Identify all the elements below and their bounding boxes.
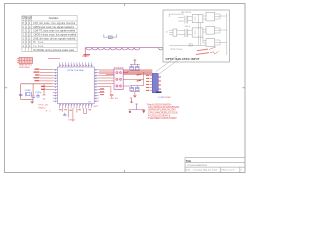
- svg-text:RST1: RST1: [93, 106, 99, 108]
- svg-text:CPLD BUS BOARD REV A: CPLD BUS BOARD REV A: [187, 164, 208, 167]
- left wire net labels: [34, 69, 46, 90]
- wire right rail: [140, 72, 144, 86]
- wire net PWR: [48, 58, 60, 60]
- J2 pin labels: [146, 75, 149, 91]
- bus band to J2: [114, 70, 152, 75]
- driver U14: [206, 26, 215, 34]
- J2 pin stubs: [150, 76, 153, 91]
- U1 left pins: [53, 69, 58, 101]
- transformer T2: [185, 29, 188, 37]
- connector J1: [17, 58, 33, 64]
- ground cluster: [129, 104, 146, 114]
- bottom pin net labels: [59, 109, 91, 110]
- ground: [30, 100, 34, 104]
- svg-text:J5: J5: [166, 31, 168, 33]
- svg-text:Pin MODE: all bus deferred ena: Pin MODE: all bus deferred enable state: [33, 49, 75, 52]
- svg-text:CMOS hi input mode, bus signal: CMOS hi input mode, bus signals enabled: [33, 33, 77, 36]
- jumper W1 top-center: [104, 34, 117, 38]
- svg-text:LINE def state, all bus signal: LINE def state, all bus signals enabled: [33, 37, 76, 40]
- opto U11: [192, 28, 203, 37]
- wire to U1: [43, 84, 46, 95]
- svg-text:R3: R3: [46, 111, 51, 113]
- net label bottom: [68, 106, 99, 121]
- right pin net labels: [100, 88, 104, 95]
- svg-text:R NET: R NET: [166, 97, 172, 99]
- U1 bottom pin numbers: [60, 104, 92, 105]
- notes table header text: [22, 17, 59, 22]
- svg-text:Y1 8M: Y1 8M: [25, 90, 31, 92]
- svg-text:VBAT2: VBAT2: [38, 106, 46, 109]
- J2 bottom edge mark: [156, 91, 162, 93]
- jumper JP1: [114, 69, 123, 90]
- wire diagonals to detail box: [156, 56, 180, 74]
- svg-text:RTN 2.2K A: RTN 2.2K A: [171, 48, 183, 51]
- U13 wires: [203, 14, 227, 19]
- transformer T1: [185, 16, 188, 24]
- svg-text:CMOS input mode, bus signals i: CMOS input mode, bus signals isolated in: [33, 26, 75, 29]
- net bus wire to detail box: [85, 48, 163, 50]
- net labels mid: [137, 74, 142, 82]
- notes table: [22, 15, 77, 51]
- svg-text:Date:: Date:: [186, 168, 192, 171]
- resistor R10: [169, 44, 206, 46]
- capacitor C4 C5 pair: [130, 65, 140, 71]
- power symbol VCC2: [134, 59, 137, 65]
- connector J5: [169, 29, 177, 36]
- title block date sheet text: [186, 168, 243, 171]
- capacitor C2: [31, 96, 35, 100]
- svg-text:PWR.GD: PWR.GD: [22, 17, 32, 19]
- svg-text:GND-A1: GND-A1: [38, 104, 49, 107]
- capacitor C1: [19, 94, 23, 95]
- capacitor C8: [63, 113, 66, 116]
- wire to JP1: [99, 75, 114, 94]
- ground: [133, 92, 137, 98]
- title block title text: [186, 159, 208, 167]
- svg-text:GND-B: GND-B: [68, 119, 76, 121]
- net label VCC: [82, 54, 90, 58]
- T2 input wires: [177, 31, 185, 35]
- approval note red: [196, 49, 209, 55]
- detail box: [163, 10, 229, 62]
- wire VCC drop: [84, 48, 86, 57]
- svg-text:CAP 10u: CAP 10u: [110, 97, 119, 100]
- notes table rows text: [23, 22, 77, 52]
- U15 wires: [203, 40, 227, 45]
- left wire bundle: [40, 69, 53, 89]
- approval tick red: [209, 47, 219, 54]
- svg-text:LOW TTL input mode, bus signal: LOW TTL input mode, bus signals enabled: [33, 30, 76, 33]
- U1 top pins: [60, 62, 92, 67]
- U1 right pin numbers: [95, 70, 96, 102]
- wire JP1 right: [123, 71, 144, 87]
- svg-text:EPM7064AE: EPM7064AE: [68, 69, 85, 72]
- svg-text:CON8: CON8: [158, 97, 166, 99]
- U1 bottom pins: [60, 104, 92, 109]
- capacitor C3 group: [36, 94, 40, 98]
- capacitor C9 red: [110, 95, 114, 98]
- wire AC input: [169, 14, 184, 21]
- U10 input wires: [188, 17, 196, 21]
- svg-text:C3 22p: C3 22p: [35, 92, 42, 94]
- J1 value label: [19, 64, 33, 70]
- MCU U1: [58, 67, 95, 104]
- U1 left pin numbers: [55, 70, 56, 102]
- svg-text:Hi bus: Hi bus: [33, 42, 44, 44]
- U1 bottom wires: [63, 108, 87, 121]
- svg-text:Sheet 1 of 2: Sheet 1 of 2: [221, 168, 235, 171]
- svg-text:PS2.0: PS2.0: [185, 26, 190, 28]
- svg-text:OPTO ISOLATED INPUT: OPTO ISOLATED INPUT: [166, 57, 200, 61]
- J2 right pin stubs: [158, 77, 161, 90]
- svg-text:Description: Description: [49, 17, 59, 20]
- net label OSC: [38, 99, 51, 113]
- power flag node: [130, 98, 133, 103]
- svg-text:Tuesday, May 04, 2004: Tuesday, May 04, 2004: [193, 169, 218, 171]
- svg-text:5. SEE SHEET 2 FOR BUS TERM: 5. SEE SHEET 2 FOR BUS TERM: [148, 117, 177, 120]
- title block: [185, 158, 245, 173]
- capacitor C6 C7 pair: [130, 86, 140, 92]
- svg-text:Title: Title: [186, 159, 192, 163]
- opto U10: [192, 15, 203, 23]
- svg-text:Lo bus: Lo bus: [33, 46, 44, 48]
- crystal Y1: [25, 92, 31, 97]
- U1 right pins: [94, 69, 99, 101]
- svg-text:PWR JTAG1: PWR JTAG1: [19, 66, 31, 69]
- crystal circuit wire: [21, 84, 53, 100]
- U11 input wires: [188, 31, 196, 35]
- svg-text:AC IN 5V: AC IN 5V: [182, 11, 192, 14]
- svg-text:JP1 MODE: JP1 MODE: [114, 67, 125, 69]
- connector J2: [152, 73, 158, 92]
- svg-text:CNT def state, bus signals ina: CNT def state, bus signals inactive: [33, 22, 76, 25]
- svg-text:PWR0: PWR0: [82, 56, 89, 58]
- driver U15: [206, 39, 215, 47]
- driver U13: [206, 12, 215, 21]
- bus verticals: [198, 13, 227, 55]
- U14 wires: [203, 28, 227, 33]
- U1 top pin numbers: [60, 65, 92, 66]
- schematic notes text: [147, 104, 180, 121]
